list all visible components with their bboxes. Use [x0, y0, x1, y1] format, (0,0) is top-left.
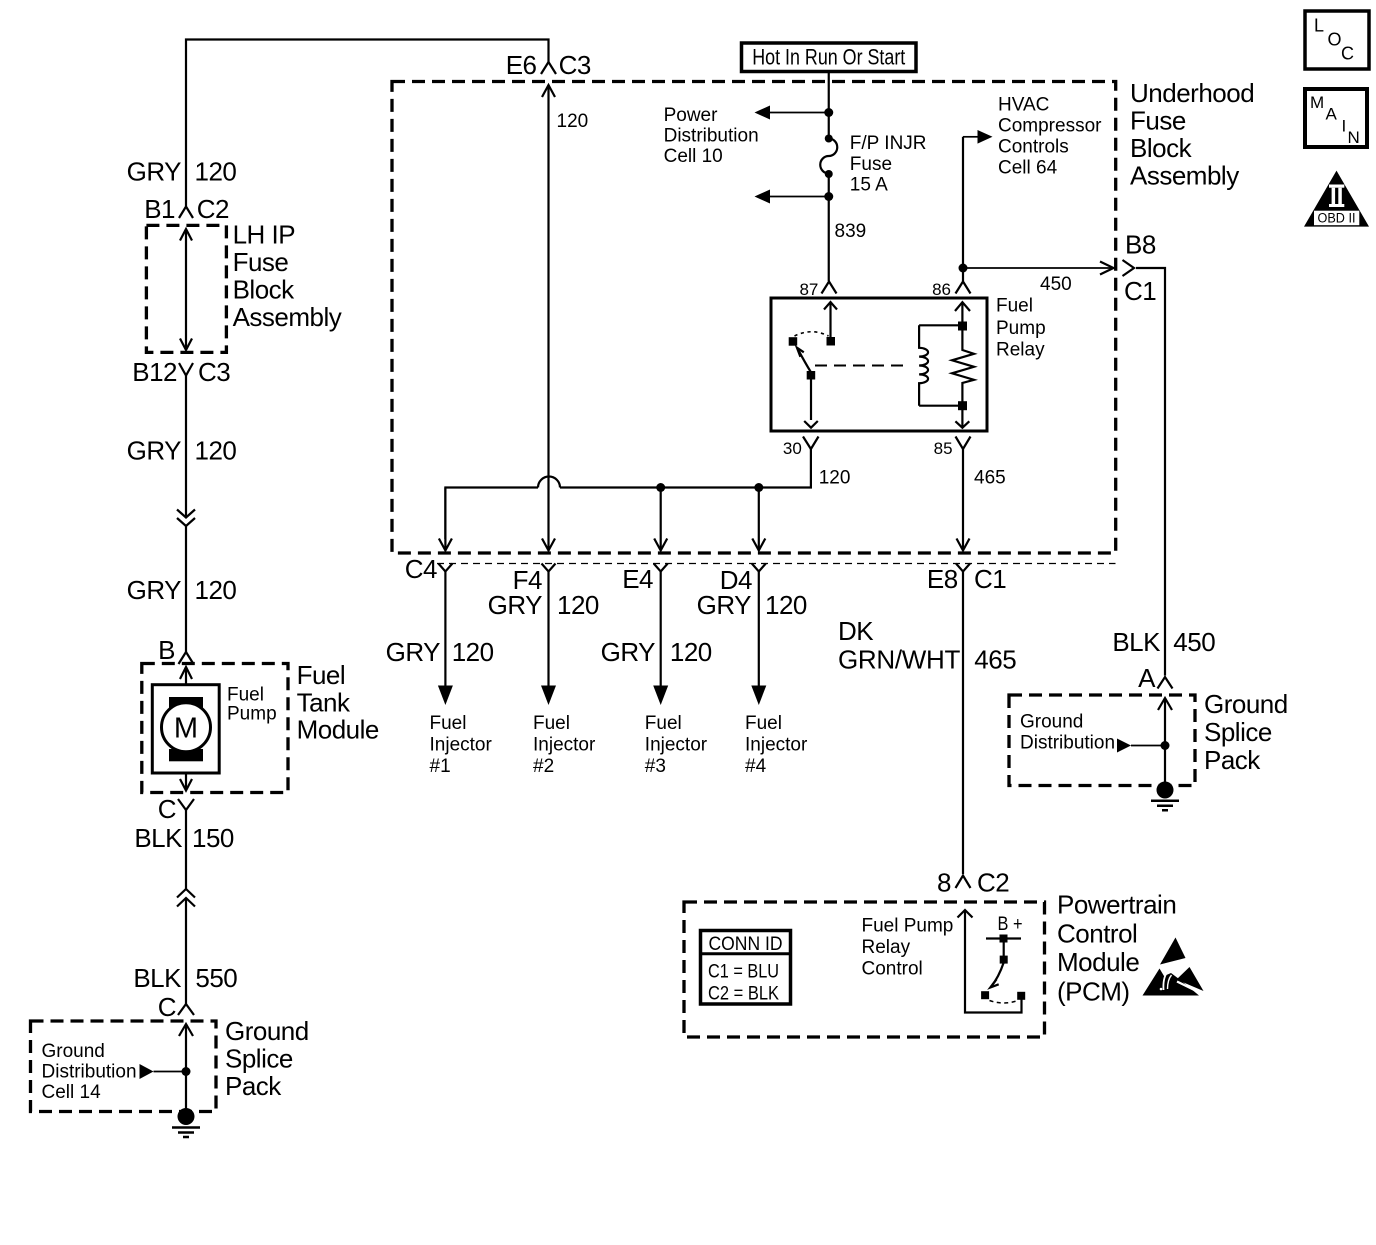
svg-text:Module: Module: [1057, 947, 1139, 977]
svg-text:450: 450: [1040, 274, 1072, 295]
svg-text:B12: B12: [132, 357, 177, 387]
svg-text:GRY: GRY: [386, 637, 441, 667]
svg-text:150: 150: [192, 823, 234, 853]
svg-text:C: C: [158, 794, 176, 824]
svg-text:CONN ID: CONN ID: [709, 934, 783, 955]
svg-text:LH IP: LH IP: [233, 220, 296, 250]
svg-text:C1: C1: [974, 564, 1006, 594]
svg-text:120: 120: [557, 590, 599, 620]
Underhood Fuse Block Assembly dashed box: [392, 82, 1116, 554]
svg-text:B1: B1: [144, 194, 175, 224]
svg-text:E6: E6: [506, 50, 537, 80]
svg-text:Fuse: Fuse: [1130, 106, 1186, 136]
svg-text:BLK: BLK: [133, 963, 182, 993]
relay pin 87 connector: [799, 280, 836, 299]
svg-text:M: M: [174, 713, 198, 745]
svg-text:DK: DK: [838, 616, 874, 646]
svg-text:Fuse: Fuse: [233, 247, 289, 277]
svg-text:Power: Power: [664, 105, 719, 126]
svg-text:Distribution: Distribution: [664, 126, 759, 147]
relay dashed actuation link: [815, 365, 905, 367]
svg-text:C: C: [158, 992, 176, 1022]
svg-text:Injector: Injector: [430, 735, 493, 756]
svg-text:Block: Block: [1130, 133, 1193, 163]
svg-text:85: 85: [934, 439, 953, 458]
svg-text:GRY: GRY: [488, 590, 543, 620]
svg-text:E8: E8: [927, 564, 958, 594]
svg-text:15 A: 15 A: [850, 175, 888, 196]
svg-text:Powertrain: Powertrain: [1057, 890, 1176, 920]
node B12 C3 connector: [132, 357, 230, 387]
svg-text:120: 120: [195, 575, 237, 605]
svg-text:550: 550: [195, 963, 237, 993]
svg-text:C2: C2: [197, 194, 229, 224]
wire break symbol: [177, 889, 195, 907]
ground distribution arrow (right): [1117, 739, 1170, 753]
svg-text:C4: C4: [405, 554, 437, 584]
OBD II icon triangle: [1304, 171, 1369, 227]
svg-text:C2 = BLK: C2 = BLK: [708, 984, 779, 1005]
svg-text:Pack: Pack: [225, 1071, 282, 1101]
svg-text:Pump: Pump: [227, 704, 277, 725]
svg-text:87: 87: [799, 280, 818, 299]
svg-text:B8: B8: [1125, 230, 1156, 260]
ground splice pack dashed box (left): [31, 1021, 217, 1112]
svg-text:Ground: Ground: [1204, 689, 1288, 719]
Fuel Tank Module dashed box: [142, 660, 379, 793]
wire top horizontal from left wire to E6: [186, 40, 549, 207]
ground splice pack dashed box (right): [1009, 695, 1195, 786]
svg-text:120: 120: [670, 637, 712, 667]
svg-text:Assembly: Assembly: [1130, 161, 1239, 191]
wire DK GRN/WHT 465 down to PCM: [838, 572, 1016, 875]
wire 450 to B8 connector: [963, 262, 1114, 296]
svg-text:#2: #2: [533, 756, 554, 777]
node E8 C1 connector: [927, 564, 1006, 595]
svg-text:Pack: Pack: [1204, 745, 1261, 775]
relay coil: [919, 325, 962, 405]
label Fuel Pump Relay: [996, 296, 1046, 361]
svg-text:Fuel: Fuel: [645, 713, 682, 734]
wire drops to connector row: [439, 488, 765, 551]
svg-text:L: L: [1314, 16, 1324, 36]
ground symbol G2 (left): [172, 1108, 200, 1137]
svg-text:O: O: [1328, 30, 1342, 50]
svg-text:GRY: GRY: [697, 590, 752, 620]
svg-text:Relay: Relay: [862, 937, 911, 958]
svg-text:Distribution: Distribution: [42, 1062, 137, 1083]
svg-text:Pump: Pump: [996, 318, 1046, 339]
node C connector above ground splice: [158, 992, 194, 1022]
svg-text:F/P INJR: F/P INJR: [850, 133, 927, 154]
relay pin 86 connector: [932, 280, 970, 299]
svg-text:A: A: [1326, 105, 1338, 124]
relay pin 30 connector: [783, 437, 819, 459]
connector row dashed separator: [437, 563, 1116, 565]
fuse F/P INJR 15 A: [820, 133, 926, 196]
svg-text:120: 120: [452, 637, 494, 667]
svg-text:GRY: GRY: [127, 435, 182, 465]
fuel pump motor M1: [152, 667, 276, 791]
label Power Distribution Cell 10: [664, 105, 759, 167]
wire break symbol: [177, 510, 195, 527]
svg-text:Hot In Run Or Start: Hot In Run Or Start: [752, 45, 905, 70]
svg-text:C3: C3: [198, 357, 230, 387]
svg-text:BLK: BLK: [1112, 627, 1161, 657]
svg-text:Ground: Ground: [1020, 712, 1083, 733]
svg-text:Fuel: Fuel: [430, 713, 467, 734]
svg-text:M: M: [1310, 93, 1324, 112]
node F4 connector: [488, 564, 599, 621]
svg-text:C1: C1: [1124, 276, 1156, 306]
svg-text:#1: #1: [430, 756, 451, 777]
svg-text:120: 120: [557, 111, 589, 132]
PCM internal wire from pin 8: [958, 910, 1022, 1013]
svg-text:A: A: [1138, 663, 1156, 693]
svg-text:Compressor: Compressor: [998, 116, 1102, 137]
svg-text:Cell 10: Cell 10: [664, 146, 723, 167]
ground symbol G1 (right): [1151, 782, 1179, 811]
svg-text:120: 120: [819, 468, 851, 489]
wire 465 from pin 85 down: [957, 449, 1006, 551]
svg-text:Underhood: Underhood: [1130, 78, 1254, 108]
fuel injector 3 wire and arrow: [601, 572, 712, 778]
power distribution arrow (lower): [755, 190, 834, 204]
svg-text:Fuel: Fuel: [227, 685, 264, 706]
svg-text:Fuse: Fuse: [850, 154, 892, 175]
svg-text:#3: #3: [645, 756, 666, 777]
svg-text:120: 120: [195, 157, 237, 187]
svg-text:Fuel: Fuel: [745, 713, 782, 734]
wire BLK 150 down: [185, 810, 187, 1004]
svg-text:Distribution: Distribution: [1020, 733, 1115, 754]
wire 839 from Hot box to relay pin 87: [828, 72, 830, 282]
CONN ID table: [701, 931, 791, 1005]
svg-text:465: 465: [974, 645, 1016, 675]
HVAC branch wire and arrow: [963, 130, 993, 281]
svg-text:Injector: Injector: [645, 735, 708, 756]
node junction dots on bus: [656, 483, 665, 492]
svg-text:BLK: BLK: [134, 823, 183, 853]
svg-text:GRY: GRY: [127, 575, 182, 605]
svg-text:Fuel: Fuel: [533, 713, 570, 734]
wire 120 from E6 down to F4: [542, 85, 588, 551]
svg-text:Injector: Injector: [745, 735, 808, 756]
wire bus from pin 30 to injector drops: [445, 449, 850, 539]
PCM driver transistor symbol: [981, 914, 1025, 1003]
svg-text:120: 120: [195, 435, 237, 465]
LOC icon box: [1305, 11, 1369, 69]
node E6 C3 connector: [506, 50, 591, 80]
svg-text:Control: Control: [1057, 919, 1137, 949]
svg-text:Block: Block: [233, 275, 296, 305]
node B8 C1 connector: [1123, 230, 1157, 307]
label Fuel Pump Relay Control: [862, 916, 954, 980]
svg-text:Controls: Controls: [998, 137, 1069, 158]
svg-text:Tank: Tank: [297, 687, 351, 717]
wire label GRY 120 (top left): [127, 157, 237, 187]
fuel injector 4 wire and arrow: [745, 572, 808, 778]
svg-text:86: 86: [932, 280, 951, 299]
label Underhood Fuse Block Assembly: [1130, 78, 1254, 191]
svg-text:B +: B +: [998, 914, 1023, 935]
svg-text:Control: Control: [862, 959, 923, 980]
svg-text:Ground: Ground: [225, 1016, 309, 1046]
svg-text:Splice: Splice: [1204, 717, 1272, 747]
svg-text:Fuel: Fuel: [996, 296, 1033, 317]
fuel injector 2 wire and arrow: [533, 572, 596, 778]
MAIN icon box: [1305, 89, 1367, 147]
svg-text:B: B: [158, 635, 175, 665]
node D4 connector: [697, 564, 807, 621]
node junction on 86 wire: [959, 264, 968, 273]
svg-text:Ground: Ground: [42, 1041, 105, 1062]
power distribution arrow (top): [755, 106, 834, 120]
relay pin 85 connector: [934, 437, 971, 459]
ESD symbol: [1143, 938, 1204, 996]
svg-text:GRY: GRY: [127, 157, 182, 187]
svg-text:C2: C2: [977, 868, 1009, 898]
svg-text:(PCM): (PCM): [1057, 977, 1130, 1007]
svg-text:C3: C3: [559, 50, 591, 80]
label Powertrain Control Module (PCM): [1057, 890, 1176, 1007]
node B1 C2 connector: [144, 194, 229, 224]
node 8 C2 connector at PCM: [937, 868, 1009, 898]
svg-text:HVAC: HVAC: [998, 95, 1049, 116]
svg-text:E4: E4: [622, 564, 653, 594]
node C4 connector: [405, 554, 453, 584]
svg-text:Assembly: Assembly: [233, 302, 342, 332]
relay switch contacts: [789, 302, 837, 428]
svg-text:Fuel Pump: Fuel Pump: [862, 916, 954, 937]
svg-text:C1 = BLU: C1 = BLU: [708, 962, 779, 983]
svg-text:Splice: Splice: [225, 1044, 293, 1074]
svg-text:I: I: [1342, 117, 1347, 136]
svg-text:OBD II: OBD II: [1318, 211, 1356, 226]
node A connector: [1138, 663, 1172, 693]
fuel injector 1 wire and arrow: [386, 572, 494, 778]
svg-text:#4: #4: [745, 756, 767, 777]
label HVAC Compressor Controls Cell 64: [998, 95, 1102, 179]
svg-text:450: 450: [1173, 627, 1215, 657]
LH IP Fuse Block Assembly dashed box: [146, 220, 341, 353]
svg-text:Cell 64: Cell 64: [998, 158, 1058, 179]
Powertrain Control Module dashed box: [684, 902, 1045, 1037]
Hot In Run Or Start box: [742, 43, 917, 72]
svg-text:8: 8: [937, 868, 951, 898]
svg-text:30: 30: [783, 439, 802, 458]
node E4 connector: [622, 564, 668, 595]
node C connector below pump: [158, 794, 194, 824]
svg-text:Module: Module: [297, 715, 379, 745]
svg-text:Injector: Injector: [533, 735, 596, 756]
svg-text:465: 465: [974, 468, 1006, 489]
wire left vertical GRY 120 down to fuel tank: [185, 376, 187, 653]
svg-text:N: N: [1348, 128, 1360, 147]
svg-text:Cell 14: Cell 14: [42, 1082, 102, 1103]
svg-text:839: 839: [835, 221, 867, 242]
svg-text:Fuel: Fuel: [297, 660, 346, 690]
svg-text:120: 120: [765, 590, 807, 620]
wire BLK 450 to ground splice: [1136, 268, 1165, 676]
relay 86 internal wire arrows: [955, 302, 970, 428]
svg-text:C: C: [1341, 44, 1354, 64]
svg-text:GRN/WHT: GRN/WHT: [838, 645, 961, 675]
ground distribution arrow (left): [140, 1064, 191, 1079]
fuel pump relay box U1: [771, 298, 987, 431]
label Ground Splice Pack (right): [1204, 689, 1288, 775]
label Ground Splice Pack (left): [225, 1016, 309, 1101]
node B connector: [158, 635, 193, 665]
svg-text:Relay: Relay: [996, 340, 1045, 361]
relay coil resistor: [952, 322, 974, 411]
svg-text:GRY: GRY: [601, 637, 656, 667]
